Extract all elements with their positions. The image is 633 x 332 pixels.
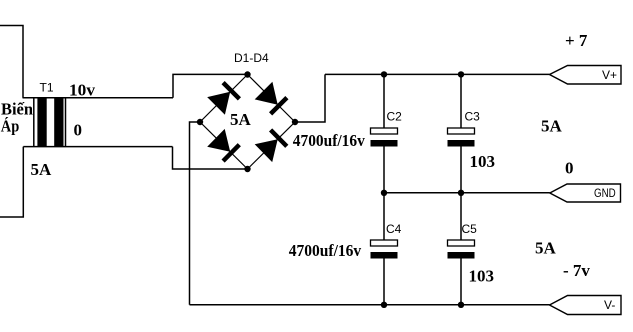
svg-text:0: 0 — [74, 120, 83, 139]
svg-text:+ 7: + 7 — [565, 31, 588, 50]
svg-text:0: 0 — [565, 159, 574, 178]
svg-text:4700uf/16v: 4700uf/16v — [293, 131, 365, 150]
svg-text:C3: C3 — [465, 110, 481, 124]
svg-text:5A: 5A — [541, 116, 563, 135]
svg-text:5A: 5A — [230, 110, 252, 129]
svg-text:103: 103 — [470, 152, 496, 171]
svg-text:C2: C2 — [387, 110, 403, 124]
svg-text:10v: 10v — [69, 81, 96, 100]
svg-text:5A: 5A — [31, 160, 53, 179]
svg-text:4700uf/16v: 4700uf/16v — [289, 241, 362, 260]
svg-text:D1-D4: D1-D4 — [234, 51, 269, 65]
svg-text:5A: 5A — [535, 239, 557, 258]
svg-text:T1: T1 — [40, 81, 54, 95]
svg-text:V-: V- — [604, 298, 615, 312]
svg-text:Áp: Áp — [1, 117, 20, 136]
svg-text:V+: V+ — [602, 68, 617, 82]
svg-text:103: 103 — [469, 267, 495, 286]
svg-text:C5: C5 — [462, 222, 478, 236]
svg-text:GND: GND — [594, 186, 616, 200]
svg-text:- 7v: - 7v — [563, 261, 590, 280]
svg-text:C4: C4 — [386, 222, 402, 236]
